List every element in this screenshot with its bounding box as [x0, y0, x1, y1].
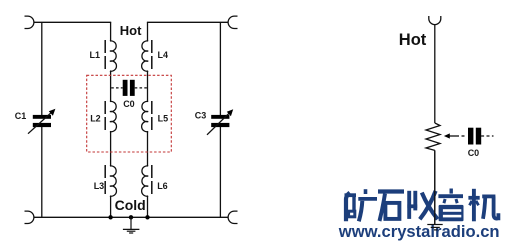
svg-text:L4: L4	[158, 50, 169, 60]
svg-text:C0: C0	[468, 148, 480, 158]
svg-text:L1: L1	[90, 50, 101, 60]
svg-text:Hot: Hot	[399, 31, 427, 49]
svg-text:Hot: Hot	[120, 23, 142, 38]
svg-text:www.crystalradio.cn: www.crystalradio.cn	[338, 222, 500, 241]
svg-text:C1: C1	[15, 111, 27, 121]
svg-text:L5: L5	[158, 114, 169, 124]
svg-text:L2: L2	[90, 114, 101, 124]
svg-text:L6: L6	[157, 181, 168, 191]
svg-text:C0: C0	[123, 99, 135, 109]
svg-text:Cold: Cold	[115, 197, 146, 213]
svg-text:C3: C3	[195, 110, 207, 120]
svg-text:L3: L3	[94, 181, 105, 191]
